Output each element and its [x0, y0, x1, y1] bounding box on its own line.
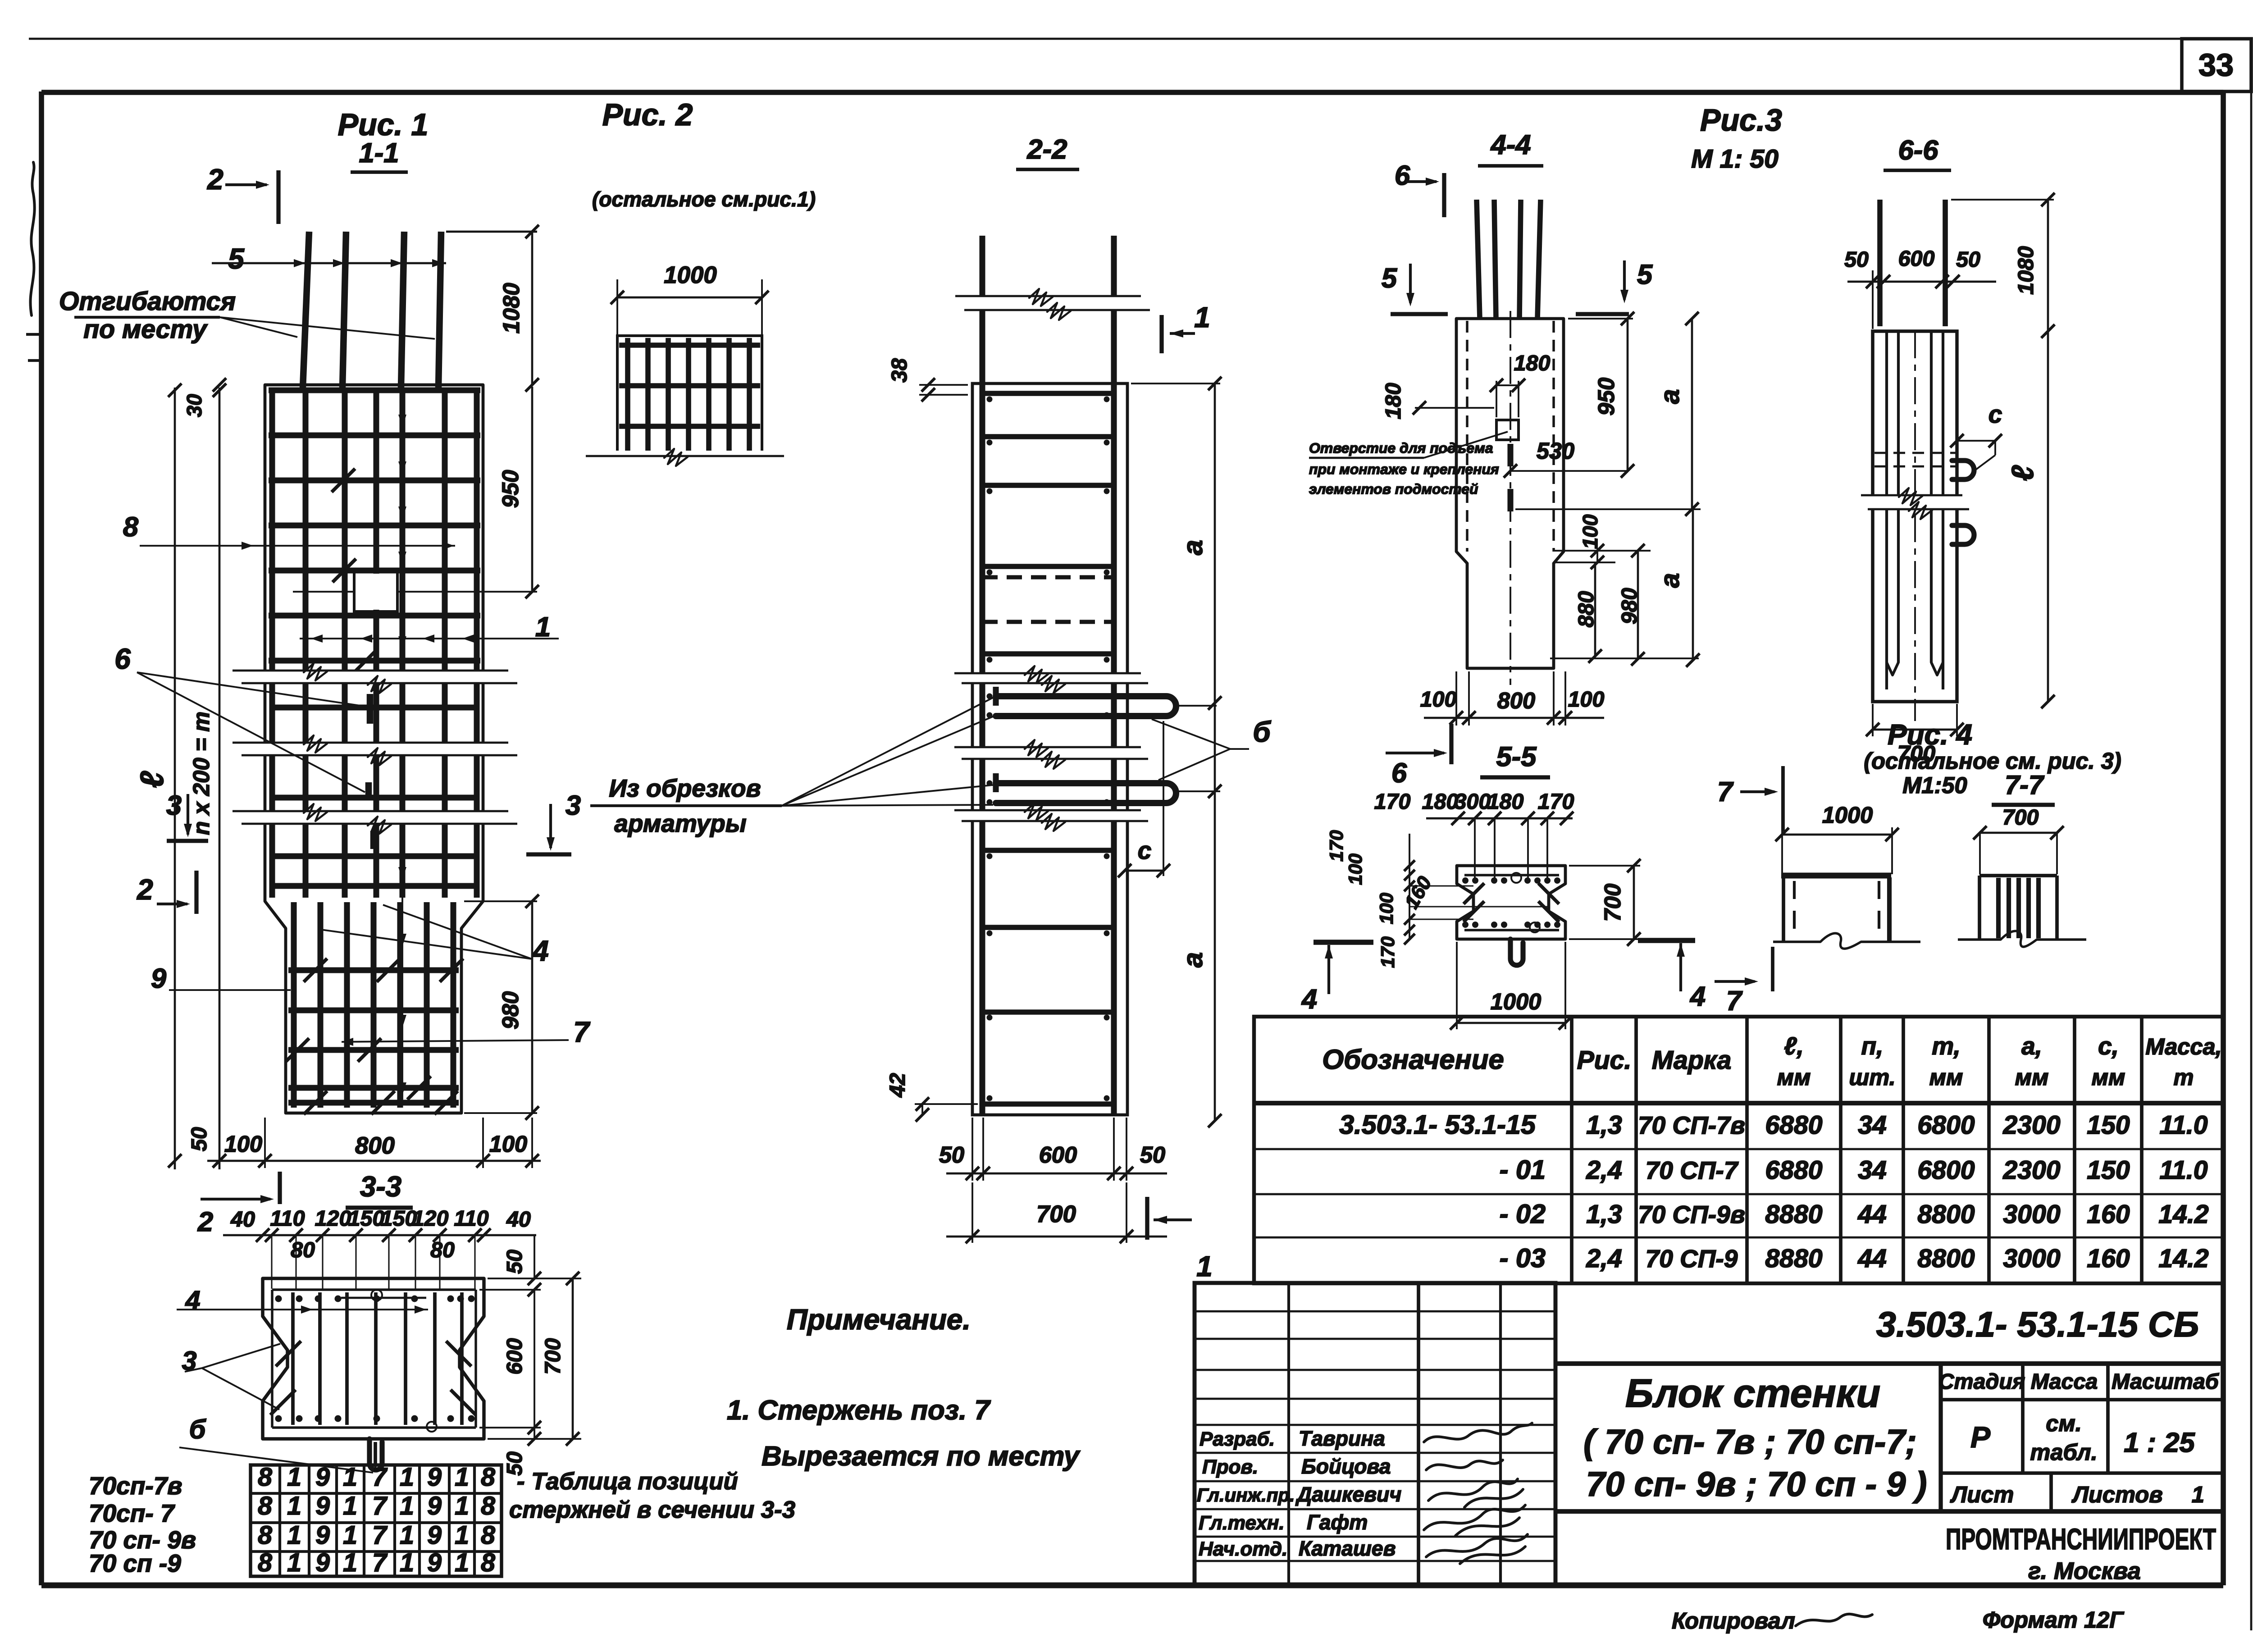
svg-text:(остальное см.рис.1): (остальное см.рис.1)	[592, 187, 816, 211]
svg-text:110: 110	[454, 1206, 488, 1231]
dimension 1000 (5-5 bottom)	[1450, 942, 1572, 1030]
svg-text:11.0: 11.0	[2159, 1156, 2207, 1185]
sheet right edge line	[2250, 39, 2253, 1630]
svg-text:1000: 1000	[664, 262, 716, 288]
2-2 bar section dots	[987, 397, 1110, 1101]
svg-text:Таврина: Таврина	[1299, 1427, 1385, 1450]
6-6 centre axis	[1914, 331, 1916, 721]
svg-text:150: 150	[2087, 1156, 2130, 1185]
svg-text:мм: мм	[1777, 1064, 1811, 1090]
svg-text:2300: 2300	[2002, 1111, 2060, 1140]
svg-text:ℓ: ℓ	[2006, 465, 2040, 481]
Fig.2 mesh horizontal bars	[619, 342, 760, 426]
svg-text:2300: 2300	[2002, 1156, 2060, 1185]
5-5 section outline with notches	[1457, 866, 1565, 939]
svg-text:1,3: 1,3	[1586, 1111, 1622, 1140]
2-2 rungs (transverse bars)	[982, 393, 1114, 1104]
sheet top edge line	[29, 38, 2251, 40]
svg-text:180: 180	[1422, 789, 1459, 814]
svg-text:4: 4	[185, 1285, 200, 1315]
label б with leaders to hairpins	[1152, 716, 1271, 780]
materials table headers	[1322, 1032, 2221, 1090]
Fig.1 bar cut marks	[286, 469, 463, 1114]
section mark 2 (top)	[207, 163, 278, 224]
svg-text:Примечание.: Примечание.	[787, 1303, 971, 1336]
dimension 700 (right of 3-3)	[488, 1272, 581, 1446]
4-4 protruding bars	[1477, 200, 1541, 319]
svg-text:п,: п,	[1861, 1032, 1884, 1060]
svg-text:30: 30	[182, 394, 206, 417]
svg-text:44: 44	[1857, 1244, 1887, 1273]
sub-dimensions 80 80	[291, 1238, 455, 1262]
svg-text:2: 2	[137, 873, 153, 906]
svg-text:170: 170	[1377, 936, 1398, 968]
svg-text:180: 180	[1514, 351, 1551, 375]
svg-text:б: б	[189, 1414, 207, 1444]
svg-text:шт.: шт.	[1849, 1064, 1895, 1090]
section mark 1 (top)	[1162, 301, 1210, 353]
2-2 break lines (3 interruptions)	[954, 673, 1145, 683]
title block values Р см.табл. 1:25	[1970, 1410, 2195, 1465]
svg-text:600: 600	[1039, 1142, 1077, 1168]
svg-text:160: 160	[2087, 1200, 2130, 1229]
svg-text:1: 1	[455, 1463, 469, 1492]
svg-text:170: 170	[1538, 789, 1574, 814]
svg-text:7-7: 7-7	[2005, 770, 2045, 800]
6-6 break line	[1861, 488, 1969, 519]
svg-text:980: 980	[1617, 588, 1642, 625]
svg-text:М1:50: М1:50	[1902, 772, 1967, 798]
svg-text:5-5: 5-5	[1496, 741, 1537, 772]
svg-text:800: 800	[1497, 688, 1535, 713]
label 6 with leaders to spare bars	[114, 643, 366, 792]
svg-text:100: 100	[1568, 687, 1605, 712]
svg-text:8880: 8880	[1765, 1200, 1822, 1229]
svg-text:530: 530	[1537, 438, 1574, 464]
svg-text:4-4: 4-4	[1490, 129, 1531, 160]
svg-text:М 1: 50: М 1: 50	[1691, 145, 1779, 173]
dimension 700 above 7-7	[1973, 805, 2064, 874]
svg-text:70сп- 7: 70сп- 7	[89, 1499, 175, 1527]
svg-text:950: 950	[497, 470, 523, 508]
svg-text:1,3: 1,3	[1586, 1200, 1622, 1229]
svg-text:800: 800	[355, 1132, 395, 1159]
svg-text:т,: т,	[1932, 1032, 1960, 1060]
label Отгибаются по месту with leaders	[59, 287, 435, 344]
svg-text:Р: Р	[1970, 1420, 1991, 1454]
svg-text:1: 1	[343, 1463, 357, 1492]
svg-text:80: 80	[430, 1238, 455, 1262]
section mark 6 (top of 4-4)	[1395, 160, 1444, 217]
svg-text:9: 9	[315, 1548, 330, 1577]
note Отверстие для подъема при монтаже и крепления элементов подмостей	[1309, 432, 1508, 497]
svg-text:700: 700	[541, 1338, 565, 1375]
approval table row lines	[1195, 1311, 1555, 1561]
svg-text:50: 50	[502, 1250, 527, 1274]
svg-text:г. Москва: г. Москва	[2028, 1558, 2141, 1584]
svg-text:1: 1	[287, 1521, 301, 1550]
svg-text:1000: 1000	[1491, 989, 1542, 1014]
svg-text:c: c	[1138, 836, 1152, 864]
dimension 42	[885, 1073, 978, 1122]
2-2 longitudinal bars	[979, 383, 985, 1115]
svg-text:44: 44	[1857, 1200, 1887, 1229]
svg-text:880: 880	[1574, 591, 1598, 628]
svg-text:Пров.: Пров.	[1202, 1456, 1258, 1478]
svg-text:170: 170	[1374, 789, 1411, 814]
svg-text:1: 1	[400, 1521, 414, 1550]
svg-text:9: 9	[315, 1521, 330, 1550]
svg-text:300: 300	[1455, 789, 1491, 814]
svg-text:7: 7	[1726, 986, 1743, 1017]
svg-text:14.2: 14.2	[2158, 1244, 2208, 1273]
svg-text:n x 200 = m: n x 200 = m	[188, 712, 214, 835]
label 8 with arrow line	[123, 511, 455, 550]
6-6 section outline	[1873, 331, 1957, 702]
svg-text:38: 38	[887, 358, 912, 383]
svg-text:950: 950	[1593, 378, 1619, 415]
dimension a lower (4-4)	[1550, 509, 1700, 667]
svg-text:Нач.отд.: Нач.отд.	[1199, 1538, 1287, 1560]
svg-text:6: 6	[114, 643, 131, 675]
Fig.2 bottom break line	[586, 449, 784, 466]
3-3 bottom hook and leader to position table	[369, 1439, 382, 1470]
dimension 100 (4-4 notch)	[1554, 514, 1651, 569]
svg-text:3000: 3000	[2003, 1244, 2060, 1273]
6-6 inner mesh lines	[1887, 331, 1943, 689]
Fig.2 mesh dimension 1000	[611, 262, 769, 336]
svg-text:1: 1	[287, 1492, 301, 1520]
svg-text:6880: 6880	[1765, 1156, 1822, 1185]
dimensions 100 800 100 at Fig.1 bottom	[207, 1118, 541, 1168]
section mark 7 (top)	[1717, 766, 1783, 831]
drawing title Блок стенки (70 сп-7в; 70сп-7; 70 сп-9в; 70 сп-9)	[1583, 1371, 1927, 1504]
svg-text:Дашкевич: Дашкевич	[1295, 1483, 1401, 1506]
svg-text:700: 700	[2002, 805, 2039, 830]
Fig.1 protruding bars pos.5	[303, 232, 441, 388]
svg-text:3: 3	[566, 790, 581, 821]
svg-text:11.0: 11.0	[2159, 1111, 2207, 1140]
svg-text:Блок стенки: Блок стенки	[1625, 1371, 1880, 1415]
svg-text:1000: 1000	[1822, 802, 1873, 828]
dimension 1080 (6-6)	[1951, 193, 2055, 338]
approval table role labels	[1197, 1428, 1295, 1560]
svg-text:c: c	[1988, 400, 2002, 428]
label Из обрезков арматуры with leaders	[590, 698, 993, 837]
svg-text:100: 100	[1578, 514, 1602, 549]
dimension c (hairpin projection)	[1118, 706, 1217, 877]
svg-text:6880: 6880	[1765, 1111, 1822, 1140]
3-3 stirrup lines	[272, 1288, 476, 1291]
svg-text:3-3: 3-3	[360, 1170, 401, 1203]
svg-text:1: 1	[455, 1521, 469, 1550]
section mark 4 (right)	[1638, 940, 1706, 1012]
svg-text:40: 40	[230, 1207, 255, 1232]
svg-text:100: 100	[1376, 893, 1397, 924]
svg-text:- Таблица позиций: - Таблица позиций	[517, 1468, 738, 1495]
svg-text:1: 1	[287, 1548, 301, 1577]
title block header cells Стадия Масса Масштаб	[1938, 1364, 2223, 1473]
svg-text:Рис. 4: Рис. 4	[1888, 718, 1972, 751]
dimension 600 (right of 3-3)	[479, 1290, 541, 1428]
svg-text:a: a	[1177, 540, 1209, 555]
5-5 longitudinal bar dots	[1462, 873, 1560, 932]
svg-text:50: 50	[1844, 247, 1869, 272]
svg-text:Формат 12Г: Формат 12Г	[1983, 1607, 2125, 1633]
3-3 section outline with notches	[263, 1278, 484, 1439]
svg-text:9: 9	[427, 1548, 442, 1577]
svg-text:1: 1	[287, 1463, 301, 1492]
spare bar cut pieces pos.6 (short dashes)	[369, 694, 374, 849]
svg-text:ПРОМТРАНСНИИПРОЕКТ: ПРОМТРАНСНИИПРОЕКТ	[1946, 1522, 2216, 1556]
svg-text:6: 6	[1395, 160, 1410, 191]
Fig.1 break lines (3 interruptions)	[233, 671, 508, 683]
label 1 with arrows to bars	[300, 612, 559, 643]
svg-text:2: 2	[197, 1206, 213, 1237]
left margin vertical inventory annotation	[30, 162, 34, 315]
dimension 180 left of hole (rotated)	[1381, 383, 1494, 420]
section mark 2 (bottom)	[137, 871, 196, 914]
svg-text:табл.: табл.	[2030, 1439, 2097, 1465]
svg-text:- 01: - 01	[1500, 1155, 1546, 1185]
hairpin bars pos.6 (from bar cut pieces)	[996, 687, 1176, 803]
approval table names	[1295, 1427, 1401, 1560]
dimension 30 (top cover)	[182, 378, 226, 417]
svg-text:1: 1	[455, 1548, 469, 1577]
svg-text:Гл.техн.: Гл.техн.	[1199, 1512, 1285, 1534]
section mark 1 (bottom)	[1147, 1197, 1213, 1282]
svg-text:Отверстие для подъема: Отверстие для подъема	[1309, 440, 1493, 456]
svg-text:( 70 сп- 7в ; 70 сп-7;: ( 70 сп- 7в ; 70 сп-7;	[1583, 1423, 1917, 1461]
svg-text:Листов: Листов	[2071, 1482, 2163, 1507]
svg-text:a: a	[1655, 389, 1685, 404]
svg-text:1. Стержень поз. 7: 1. Стержень поз. 7	[727, 1395, 991, 1426]
svg-text:34: 34	[1858, 1111, 1887, 1140]
svg-text:Марка: Марка	[1652, 1046, 1732, 1075]
dimensions 50 600 50 (6-6 top)	[1844, 246, 1996, 329]
Fig.1 vertical rebars (wide part)	[272, 388, 477, 898]
svg-text:3.503.1- 53.1-15: 3.503.1- 53.1-15	[1339, 1109, 1536, 1140]
dimension 980 (4-4)	[1617, 544, 1645, 666]
svg-text:120: 120	[412, 1206, 449, 1231]
dimension 5 leader over protruding bars	[212, 242, 446, 275]
svg-text:9: 9	[315, 1463, 330, 1492]
dimension 700 under 2-2	[946, 1182, 1167, 1243]
title block Лист Листов row	[1941, 1473, 2223, 1511]
svg-text:4: 4	[532, 935, 548, 967]
svg-text:150: 150	[2087, 1111, 2130, 1140]
svg-text:Рис.: Рис.	[1577, 1046, 1632, 1075]
section mark 4 (left)	[1301, 942, 1373, 1015]
svg-text:1: 1	[343, 1492, 357, 1520]
svg-text:180: 180	[1381, 383, 1405, 420]
svg-text:9: 9	[315, 1492, 330, 1520]
svg-text:2,4: 2,4	[1586, 1244, 1622, 1273]
svg-text:180: 180	[1487, 789, 1524, 814]
7-7 section drawing	[1958, 876, 2086, 947]
section mark 5 (right)	[1576, 259, 1653, 314]
Fig.4 main view dimension 1000	[1775, 766, 1899, 876]
section mark 7 (bottom)	[1715, 947, 1773, 1017]
4-4 lifting hole	[1496, 420, 1519, 440]
svg-text:8: 8	[258, 1463, 272, 1492]
dimensions 170 180 300 180 170 above 5-5	[1374, 789, 1574, 880]
svg-text:8: 8	[258, 1548, 272, 1577]
4-4 hidden bar lines (dashed)	[1466, 321, 1468, 552]
svg-text:при монтаже и крепления: при монтаже и крепления	[1309, 461, 1499, 477]
6-6 protruding bars	[1877, 200, 1883, 326]
svg-text:170: 170	[1326, 830, 1347, 862]
svg-text:8800: 8800	[1917, 1200, 1975, 1229]
3-3 longitudinal bar dots	[275, 1290, 475, 1432]
dimension 50 (top cover right of 3-3)	[479, 1235, 581, 1296]
4-4 centre axis	[1510, 311, 1511, 685]
svg-text:6-6: 6-6	[1898, 135, 1938, 166]
svg-text:2: 2	[207, 163, 223, 196]
svg-text:40: 40	[506, 1207, 531, 1232]
svg-text:1: 1	[343, 1548, 357, 1577]
svg-text:Обозначение: Обозначение	[1322, 1044, 1504, 1075]
svg-text:34: 34	[1858, 1156, 1887, 1185]
lifting hole in Fig.1	[356, 574, 396, 610]
label б with leader (3-3)	[179, 1414, 373, 1473]
left dimension chain 170 100 100 170 and 160 (5-5)	[1326, 830, 1549, 968]
svg-text:2-2: 2-2	[1026, 134, 1067, 165]
svg-text:14.2: 14.2	[2158, 1200, 2208, 1229]
svg-text:(остальное см. рис. 3): (остальное см. рис. 3)	[1864, 748, 2121, 774]
svg-text:арматуры: арматуры	[614, 809, 746, 837]
svg-text:1 : 25: 1 : 25	[2124, 1427, 2195, 1458]
svg-text:2,4: 2,4	[1586, 1156, 1622, 1185]
svg-text:стержней в сечении 3-3: стержней в сечении 3-3	[509, 1497, 795, 1523]
svg-text:с,: с,	[2098, 1032, 2119, 1060]
svg-text:50: 50	[1956, 247, 1980, 272]
svg-text:70 СП-7в: 70 СП-7в	[1638, 1111, 1745, 1139]
svg-text:ℓ,: ℓ,	[1784, 1032, 1804, 1060]
section mark 3 (left)	[166, 790, 208, 841]
svg-text:Масштаб: Масштаб	[2112, 1369, 2220, 1394]
caption Таблица позиций стержней в сечении 3-3	[509, 1468, 795, 1523]
dimension 530	[1504, 438, 1634, 478]
svg-text:1: 1	[455, 1492, 469, 1520]
Fig.2 mesh outline	[617, 336, 762, 456]
svg-text:- 03: - 03	[1500, 1243, 1546, 1273]
svg-text:4: 4	[1689, 981, 1706, 1012]
svg-text:Каташев: Каташев	[1299, 1537, 1396, 1560]
section mark 5 (left)	[1382, 263, 1448, 314]
Fig.1 direction arrows on centre bar	[398, 415, 406, 1100]
dimension chain 40 110 120 150 150 120 110 40 above 3-3	[223, 1206, 536, 1289]
svg-text:100: 100	[489, 1131, 527, 1157]
svg-text:700: 700	[1600, 884, 1625, 922]
svg-text:1080: 1080	[2014, 246, 2038, 295]
svg-text:3.503.1- 53.1-15 СБ: 3.503.1- 53.1-15 СБ	[1876, 1304, 2199, 1344]
svg-text:мм: мм	[2015, 1064, 2049, 1090]
svg-text:150: 150	[348, 1206, 385, 1231]
svg-text:600: 600	[502, 1338, 527, 1375]
svg-text:1: 1	[400, 1548, 414, 1577]
2-2 top break line	[955, 289, 1150, 320]
svg-text:80: 80	[291, 1238, 315, 1262]
Fig.1 horizontal mesh bars (narrow part)	[288, 970, 459, 1103]
Fig.1 horizontal mesh bars (wide part)	[269, 390, 480, 886]
dimension l (6-6 length)	[2006, 331, 2055, 708]
section mark 2 (of 3-3 view)	[197, 1172, 280, 1237]
svg-text:Стадия: Стадия	[1938, 1369, 2025, 1394]
6-6 hidden lines near hole	[1874, 452, 1956, 454]
svg-text:Рис.3: Рис.3	[1700, 103, 1782, 137]
svg-text:100: 100	[224, 1131, 262, 1157]
svg-text:7: 7	[372, 1548, 388, 1577]
svg-text:7: 7	[372, 1521, 388, 1550]
Fig.4 main view (top of wall block)	[1773, 876, 1920, 949]
svg-text:- 02: - 02	[1500, 1199, 1546, 1229]
svg-text:a: a	[1177, 952, 1209, 967]
dimension c (6-6)	[1950, 400, 2002, 470]
svg-text:8: 8	[258, 1492, 272, 1520]
svg-text:600: 600	[1898, 246, 1935, 271]
svg-text:70 сп -9: 70 сп -9	[89, 1549, 181, 1577]
svg-text:70 СП-7: 70 СП-7	[1646, 1156, 1739, 1184]
svg-text:1: 1	[400, 1492, 414, 1520]
label 4 with leader (3-3)	[177, 1285, 428, 1315]
svg-text:Из обрезков: Из обрезков	[609, 774, 761, 802]
svg-text:50: 50	[1140, 1142, 1165, 1168]
dimension a upper (4-4)	[1515, 312, 1701, 516]
svg-text:50: 50	[939, 1142, 964, 1168]
svg-text:мм: мм	[1929, 1064, 1963, 1090]
svg-text:150: 150	[381, 1206, 417, 1231]
svg-text:33: 33	[2198, 47, 2234, 82]
svg-text:a: a	[1655, 573, 1685, 588]
approval table column lines	[1289, 1283, 1500, 1585]
2-2 panel outline	[972, 383, 1127, 1115]
dimension 50 (bottom cover right of 3-3)	[502, 1421, 541, 1476]
dimensions 100 800 100 under 4-4	[1420, 671, 1605, 726]
3-3 vertical bars	[293, 1292, 462, 1425]
row labels 70СП-7в 70СП-7 70СП-9в 70СП-9	[89, 1472, 196, 1577]
svg-text:а,: а,	[2021, 1032, 2042, 1060]
5-5 bottom hook	[1510, 939, 1523, 965]
svg-text:160: 160	[2087, 1244, 2130, 1273]
svg-text:1: 1	[1194, 301, 1210, 333]
title block frame	[1555, 1364, 2223, 1511]
dimensions 50 600 50 under 2-2	[939, 1118, 1167, 1181]
svg-text:1: 1	[400, 1463, 414, 1492]
svg-text:8: 8	[481, 1548, 495, 1577]
5-5 bent bar marks in notches	[1464, 883, 1559, 922]
svg-text:1-1: 1-1	[359, 137, 399, 169]
svg-text:1: 1	[2192, 1482, 2204, 1507]
label 4 with leaders	[318, 905, 549, 967]
label 7 with leader	[342, 1016, 590, 1048]
svg-text:9: 9	[427, 1463, 442, 1492]
svg-text:9: 9	[427, 1492, 442, 1520]
4-4 column outline	[1456, 319, 1564, 668]
svg-text:6800: 6800	[1917, 1111, 1975, 1140]
approval table frame	[1195, 1283, 1555, 1585]
dimension 950 (4-4)	[1568, 312, 1634, 471]
svg-text:70 СП-9: 70 СП-9	[1646, 1245, 1738, 1273]
svg-text:50: 50	[187, 1127, 211, 1151]
svg-text:Масса,: Масса,	[2145, 1034, 2221, 1059]
svg-text:8: 8	[123, 511, 139, 543]
svg-text:8: 8	[481, 1521, 495, 1550]
section mark 6 (left of 5-5)	[1386, 724, 1451, 789]
signatures	[1424, 1423, 1532, 1564]
label 9 with leader	[151, 963, 291, 994]
svg-text:Бойцова: Бойцова	[1301, 1455, 1391, 1478]
